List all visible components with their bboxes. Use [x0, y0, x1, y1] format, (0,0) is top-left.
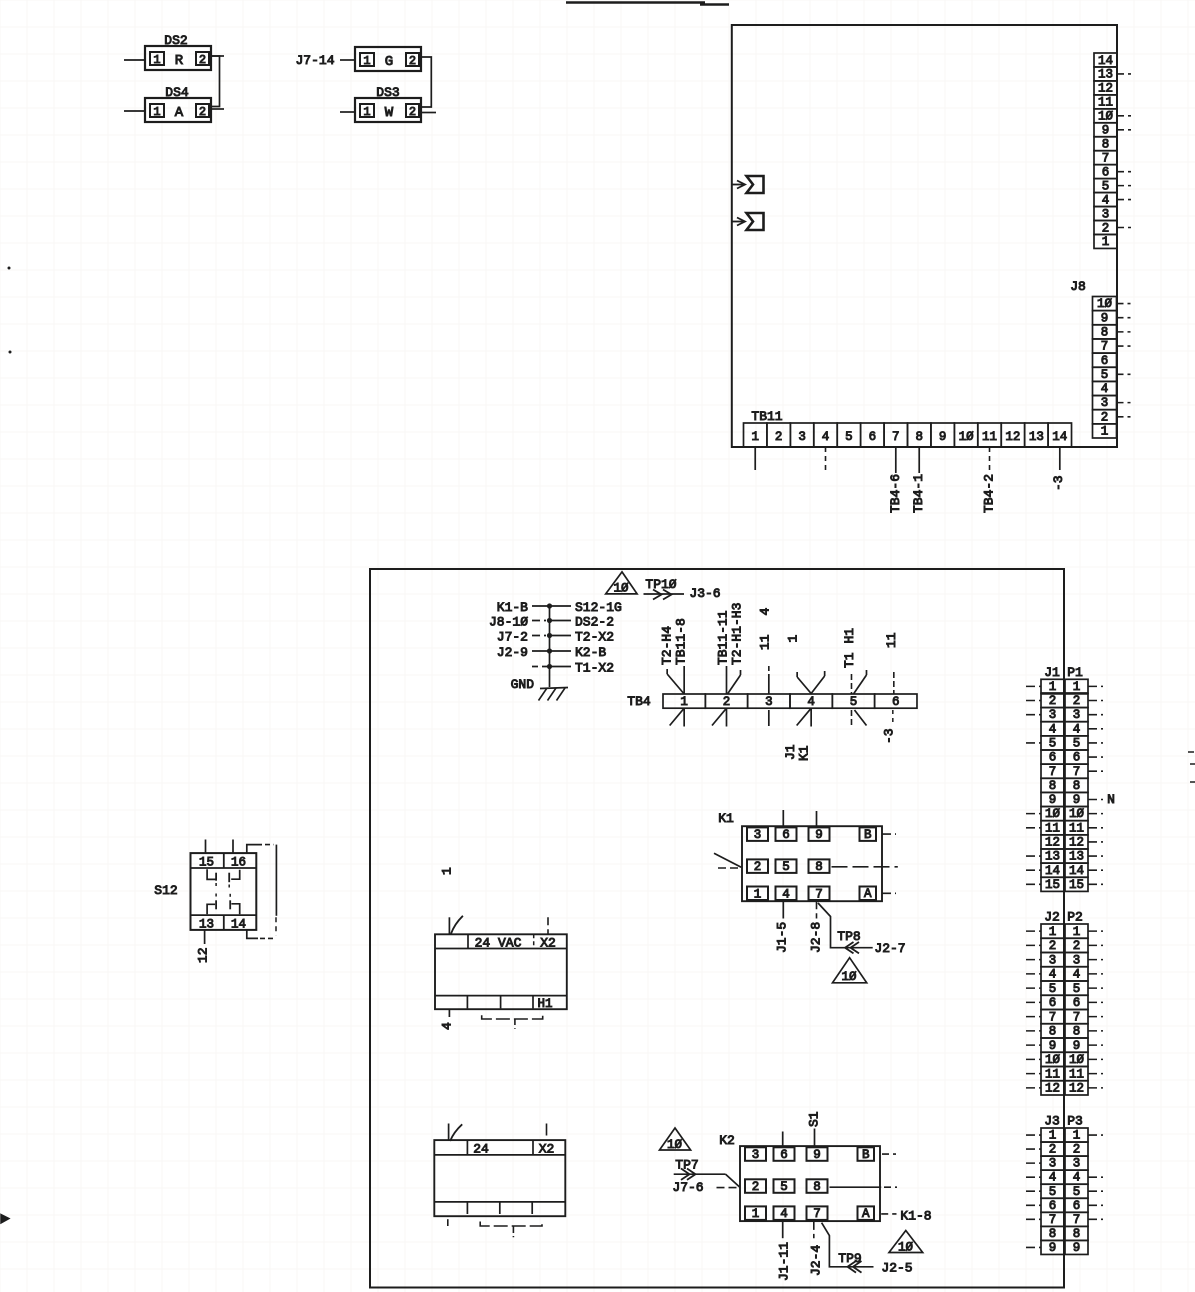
svg-text:7: 7 [813, 1207, 821, 1221]
junction dot [547, 603, 552, 608]
svg-text:1: 1 [363, 105, 370, 119]
svg-text:1: 1 [751, 430, 759, 444]
svg-text:S1: S1 [807, 1111, 822, 1127]
svg-text:4: 4 [1049, 1171, 1057, 1185]
svg-text:8: 8 [1049, 779, 1057, 793]
svg-text:7: 7 [1073, 1010, 1081, 1024]
connector J3/P3 pins [1041, 1128, 1088, 1255]
svg-text:14: 14 [1098, 54, 1113, 68]
connector column pins 14..1 [1094, 53, 1117, 249]
svg-text:2: 2 [1073, 1143, 1081, 1157]
junction dot [547, 633, 552, 638]
svg-text:7: 7 [892, 430, 900, 444]
svg-text:6: 6 [1049, 996, 1057, 1010]
svg-text:K2: K2 [719, 1133, 735, 1148]
relay K2 [740, 1146, 880, 1221]
svg-text:DS2-2: DS2-2 [575, 615, 614, 630]
svg-text:1: 1 [752, 1207, 760, 1221]
svg-text:4: 4 [807, 695, 815, 709]
wire K1-9 stub up [816, 811, 818, 826]
svg-text:3: 3 [752, 1148, 760, 1162]
svg-text:4: 4 [1049, 968, 1057, 982]
terminal strip TB11 pins 1..14 [744, 423, 1072, 447]
svg-text:J7-6: J7-6 [672, 1180, 703, 1195]
svg-text:1: 1 [440, 867, 455, 875]
svg-text:1Ø: 1Ø [841, 970, 857, 984]
wire T1-X2 row [532, 666, 550, 668]
svg-text:5: 5 [1073, 737, 1081, 751]
wires above TB4-5 [850, 674, 852, 694]
wire K1-6 stub up [782, 810, 784, 826]
wire below TB11-7 [895, 447, 897, 473]
wire into K1-2 (diagonal) [714, 853, 741, 867]
svg-text:4: 4 [782, 887, 790, 901]
wire K1-7 to J2-7 [818, 903, 873, 948]
svg-text:1: 1 [754, 887, 762, 901]
svg-text:X2: X2 [540, 935, 556, 950]
svg-text:11: 11 [1069, 821, 1084, 835]
svg-text:1Ø: 1Ø [1069, 1053, 1085, 1067]
svg-text:K1: K1 [797, 745, 812, 761]
svg-text:13: 13 [199, 917, 214, 931]
wire curve into T1 top-left [450, 1124, 462, 1141]
svg-text:8: 8 [1049, 1227, 1057, 1241]
wire DS4 pin2 right stub [211, 108, 224, 110]
svg-text:6: 6 [1073, 1199, 1081, 1213]
page edge artifact line [566, 1, 705, 3]
svg-text:5: 5 [780, 1180, 788, 1194]
svg-text:J2-5: J2-5 [881, 1261, 912, 1276]
svg-text:1Ø: 1Ø [1045, 1053, 1061, 1067]
svg-text:4: 4 [1073, 1171, 1081, 1185]
svg-text:J2: J2 [1044, 910, 1060, 925]
svg-text:1: 1 [680, 695, 688, 709]
wire T2 bottom-left pin [448, 1009, 450, 1017]
svg-text:2: 2 [1102, 221, 1110, 235]
wire T1 top-left pin [448, 1124, 450, 1141]
wire K1-4 stub down [782, 901, 784, 918]
wire K2-B right stub [882, 1153, 896, 1155]
svg-text:5: 5 [1101, 368, 1109, 382]
wire K2-7 stub down (dashed) [813, 1222, 815, 1238]
svg-text:8: 8 [813, 1180, 821, 1194]
svg-text:6: 6 [1049, 1199, 1057, 1213]
wires above TB4-4 (vee) [797, 676, 825, 694]
svg-text:12: 12 [196, 947, 211, 963]
svg-text:14: 14 [1045, 864, 1060, 878]
wire S12-13 stub down [204, 930, 206, 944]
svg-text:X2: X2 [539, 1142, 555, 1157]
wire T1 top-right pin [546, 1124, 548, 1141]
svg-text:1: 1 [153, 53, 160, 67]
arrow chevrons on J2-7 wire [845, 942, 854, 953]
svg-text:4: 4 [1073, 722, 1081, 736]
svg-text:H1: H1 [537, 997, 552, 1011]
wire J7-6 into K2-2 (dashed) [717, 1187, 741, 1189]
svg-text:5: 5 [1049, 1185, 1057, 1199]
svg-text:W: W [385, 105, 394, 121]
svg-text:2: 2 [1049, 1143, 1057, 1157]
svg-text:3: 3 [1073, 1157, 1081, 1171]
svg-text:13: 13 [1029, 430, 1044, 444]
svg-text:2: 2 [754, 860, 762, 874]
svg-text:1: 1 [1102, 235, 1110, 249]
svg-text:R: R [175, 53, 184, 69]
svg-text:9: 9 [1102, 124, 1110, 138]
svg-text:12: 12 [1098, 82, 1113, 96]
svg-text:8: 8 [1101, 325, 1109, 339]
wire DS2 pin1 left stub [124, 59, 145, 61]
svg-text:1: 1 [1049, 680, 1057, 694]
wire stubs J1 (left) [1026, 685, 1041, 687]
lamp DS1 (G) [355, 47, 421, 71]
wire below TB11-11 (dashed) [989, 447, 991, 473]
svg-text:J1-5: J1-5 [775, 922, 790, 953]
svg-text:3: 3 [1049, 953, 1057, 967]
svg-text:A: A [862, 1207, 870, 1221]
svg-text:T2-H1-H3: T2-H1-H3 [730, 603, 745, 665]
svg-text:8: 8 [1073, 779, 1081, 793]
lamp DS4 (A) [145, 85, 211, 122]
right margin dash [1188, 751, 1194, 753]
wire K1-8 right (dashed) [832, 866, 898, 868]
margin speck [8, 267, 11, 270]
heavy divider under J1/P1 row 1 [1041, 692, 1088, 695]
svg-text:4: 4 [758, 608, 773, 616]
svg-text:1Ø: 1Ø [1069, 807, 1085, 821]
svg-text:TB4: TB4 [627, 694, 651, 709]
connector J8 pins 10..1 [1093, 297, 1117, 439]
svg-text:3: 3 [1101, 396, 1109, 410]
wire stubs J3 (left) [1026, 1134, 1041, 1136]
svg-text:5: 5 [850, 695, 858, 709]
svg-text:15: 15 [1045, 878, 1060, 892]
svg-text:J8-1Ø: J8-1Ø [489, 615, 528, 630]
arrow chevrons on J2-5 wire [848, 1261, 857, 1273]
svg-text:1: 1 [1101, 425, 1109, 439]
wire S12-16 stub up [232, 840, 234, 854]
svg-text:5: 5 [1049, 737, 1057, 751]
svg-text:4: 4 [1073, 968, 1081, 982]
svg-text:5: 5 [845, 430, 853, 444]
wire J7-14 to G pin1 [340, 59, 355, 61]
wire K2-A right stub [881, 1213, 896, 1215]
svg-text:2: 2 [752, 1180, 760, 1194]
svg-text:9: 9 [1073, 793, 1081, 807]
wires above TB4-2 [725, 666, 727, 694]
svg-text:2: 2 [1101, 410, 1109, 424]
svg-text:4: 4 [822, 430, 830, 444]
svg-text:J8: J8 [1070, 279, 1086, 294]
wires above TB4-1 [683, 666, 685, 694]
svg-text:7: 7 [1101, 340, 1109, 354]
svg-text:7: 7 [1049, 1010, 1057, 1024]
wire S12-1G row [532, 605, 550, 607]
wire above TB4-3 [768, 674, 770, 694]
connector J2/P2 pins [1041, 924, 1088, 1096]
svg-text:J3-6: J3-6 [689, 586, 720, 601]
svg-text:3: 3 [1049, 1157, 1057, 1171]
wire T2 top-left pin [448, 917, 450, 934]
svg-text:13: 13 [1069, 850, 1084, 864]
bracket under T2 secondary [482, 1015, 543, 1019]
svg-text:15: 15 [1069, 878, 1084, 892]
svg-text:12: 12 [1045, 1082, 1060, 1096]
svg-text:2: 2 [1049, 694, 1057, 708]
junction dot [547, 664, 552, 669]
chassis ground symbol [540, 688, 568, 689]
svg-text:13: 13 [1098, 68, 1113, 82]
svg-text:J1-11: J1-11 [777, 1242, 792, 1281]
flag note triangle 10 (near J2-5) [889, 1231, 923, 1253]
svg-text:12: 12 [1045, 835, 1060, 849]
svg-text:9: 9 [1101, 311, 1109, 325]
svg-text:1Ø: 1Ø [1098, 110, 1114, 124]
wire W pin1 left stub [340, 111, 355, 113]
wire G-2 to W-2 [422, 57, 431, 107]
wire TP10 arrow to J3-6 [644, 593, 685, 595]
right margin dash [1190, 781, 1195, 783]
svg-text:4: 4 [780, 1207, 788, 1221]
svg-text:6: 6 [1102, 165, 1110, 179]
bracket under T1 secondary [480, 1222, 542, 1227]
off-page connector symbol (upper) [732, 184, 743, 186]
svg-text:1: 1 [363, 54, 370, 68]
svg-text:7: 7 [1049, 765, 1057, 779]
junction dot [547, 648, 552, 653]
wire below TB4-6 (dashed) [892, 710, 894, 726]
svg-text:J2-4: J2-4 [809, 1245, 824, 1276]
svg-text:TB4-6: TB4-6 [888, 474, 903, 513]
svg-text:8: 8 [1102, 138, 1110, 152]
svg-text:12: 12 [1069, 1082, 1084, 1096]
svg-text:1: 1 [1073, 925, 1081, 939]
svg-text:P1: P1 [1067, 665, 1083, 680]
svg-text:TB4-2: TB4-2 [982, 474, 997, 513]
wire W pin2 right stub [422, 112, 436, 114]
flag note triangle 10 (below TP8) [833, 958, 867, 983]
wire below TB11-4 (dashed) [825, 447, 827, 470]
wire below TB11-8 [918, 447, 920, 473]
svg-text:J2-7: J2-7 [874, 941, 905, 956]
svg-text:K1-8: K1-8 [900, 1209, 931, 1224]
wire K2-7 to J2-5 [822, 1223, 874, 1267]
svg-text:9: 9 [939, 430, 947, 444]
svg-text:-3: -3 [882, 728, 897, 744]
wire T2 top-right pin (dashed) [547, 917, 549, 934]
svg-text:6: 6 [892, 695, 900, 709]
wire stubs right of pins 13,10,9,6,5,4,2 [1117, 73, 1131, 75]
lamp DS2 (R) [145, 33, 211, 70]
wire T2-X2 row [532, 635, 550, 637]
wires below TB4-5 [850, 710, 852, 726]
wire above TB4-6 (dashed) [893, 672, 895, 694]
svg-text:11: 11 [982, 430, 997, 444]
wire K1-7 stub down (dashed) [816, 901, 818, 918]
svg-text:3: 3 [1073, 953, 1081, 967]
wire K1-A right stub [882, 892, 896, 894]
wire K2-4 stub down [782, 1222, 784, 1238]
svg-text:1Ø: 1Ø [667, 1138, 683, 1152]
wire stubs right of J8 pins 10,9,8,7,5,3,2 [1117, 303, 1131, 305]
svg-text:24 VAC: 24 VAC [475, 935, 522, 950]
svg-text:14: 14 [231, 917, 246, 931]
svg-text:6: 6 [1073, 751, 1081, 765]
svg-text:2: 2 [723, 695, 731, 709]
svg-text:S12: S12 [154, 883, 177, 898]
wire TP7 into K2-2 [674, 1173, 726, 1175]
wire into K1-2 (dashed) [718, 867, 742, 869]
svg-text:6: 6 [1073, 996, 1081, 1010]
svg-text:TB11-11: TB11-11 [716, 610, 731, 665]
svg-text:12: 12 [1069, 835, 1084, 849]
svg-text:9: 9 [1049, 1039, 1057, 1053]
svg-text:9: 9 [813, 1148, 821, 1162]
svg-text:P2: P2 [1067, 910, 1083, 925]
svg-text:H1: H1 [842, 628, 857, 644]
transformer T1 box [434, 1140, 565, 1216]
svg-text:2: 2 [199, 53, 206, 67]
svg-text:6: 6 [780, 1148, 788, 1162]
wire curve into T2 top-left [451, 916, 463, 934]
svg-text:11: 11 [884, 632, 899, 648]
wire stubs P1 (right) [1088, 685, 1103, 687]
svg-text:J7-2: J7-2 [497, 630, 528, 645]
svg-text:T1-X2: T1-X2 [575, 661, 614, 676]
svg-text:7: 7 [1049, 1213, 1057, 1227]
svg-text:2: 2 [409, 54, 416, 68]
lamp DS3 (W) [355, 85, 421, 122]
svg-text:2: 2 [775, 430, 783, 444]
svg-text:1Ø: 1Ø [1045, 807, 1061, 821]
svg-text:1: 1 [1073, 680, 1081, 694]
svg-text:1: 1 [153, 105, 160, 119]
svg-text:K1-B: K1-B [497, 600, 528, 615]
svg-text:TP8: TP8 [837, 929, 860, 944]
svg-text:9: 9 [815, 828, 823, 842]
svg-text:1: 1 [1049, 925, 1057, 939]
svg-text:11: 11 [1045, 1067, 1060, 1081]
svg-text:TB11: TB11 [751, 409, 782, 424]
svg-text:8: 8 [915, 430, 923, 444]
svg-text:7: 7 [815, 887, 823, 901]
svg-text:S12-1G: S12-1G [575, 600, 622, 615]
wire stubs P3 (right) [1088, 1134, 1103, 1136]
svg-text:2: 2 [199, 105, 206, 119]
connector J1/P1 pins [1041, 679, 1088, 892]
wire below TB11-14 [1059, 447, 1061, 470]
svg-text:4: 4 [1101, 382, 1109, 396]
junction dot [547, 618, 552, 623]
svg-text:5: 5 [1073, 982, 1081, 996]
svg-text:-3: -3 [1051, 475, 1066, 491]
wire DS4 pin1 left stub [124, 110, 145, 112]
wire DS2-2 to DS4-2 [211, 56, 220, 107]
svg-text:K2-B: K2-B [575, 645, 606, 660]
svg-text:2: 2 [409, 105, 416, 119]
wire K2-6 stub up [782, 1132, 784, 1147]
svg-text:4: 4 [1102, 193, 1110, 207]
svg-text:J1: J1 [1044, 665, 1060, 680]
svg-text:K1: K1 [718, 811, 734, 826]
svg-text:T1: T1 [842, 652, 857, 668]
svg-text:GND: GND [511, 677, 535, 692]
svg-text:3: 3 [765, 695, 773, 709]
svg-text:12: 12 [1005, 430, 1020, 444]
svg-text:J3: J3 [1044, 1114, 1060, 1129]
svg-text:A: A [175, 105, 184, 121]
svg-text:6: 6 [1049, 751, 1057, 765]
svg-text:1Ø: 1Ø [959, 430, 975, 444]
svg-text:P3: P3 [1067, 1114, 1083, 1129]
svg-text:2: 2 [1073, 939, 1081, 953]
svg-text:7: 7 [1073, 765, 1081, 779]
svg-text:4: 4 [1049, 722, 1057, 736]
relay K1 [742, 826, 882, 901]
wires below TB4-2 [725, 708, 727, 726]
svg-text:T2-H4: T2-H4 [660, 626, 675, 665]
wire below TB11-1 [754, 447, 756, 470]
wire K2-9 stub up [814, 1129, 816, 1147]
wire stubs P2 (right) [1088, 930, 1103, 932]
svg-text:1Ø: 1Ø [898, 1241, 914, 1255]
svg-text:7: 7 [1073, 1213, 1081, 1227]
svg-text:6: 6 [1101, 354, 1109, 368]
svg-text:1Ø: 1Ø [613, 582, 629, 596]
svg-text:14: 14 [1052, 430, 1067, 444]
svg-text:TP7: TP7 [675, 1158, 698, 1173]
svg-text:8: 8 [1073, 1025, 1081, 1039]
svg-text:9: 9 [1073, 1039, 1081, 1053]
svg-text:8: 8 [1073, 1227, 1081, 1241]
svg-text:11: 11 [1069, 1067, 1084, 1081]
svg-text:1Ø: 1Ø [1097, 297, 1113, 311]
svg-text:5: 5 [1073, 1185, 1081, 1199]
svg-text:16: 16 [231, 855, 246, 869]
svg-text:3: 3 [754, 828, 762, 842]
svg-text:5: 5 [1049, 982, 1057, 996]
svg-text:13: 13 [1045, 850, 1060, 864]
svg-text:TP1Ø: TP1Ø [645, 577, 676, 592]
svg-text:J2-9: J2-9 [497, 645, 528, 660]
svg-text:1: 1 [1073, 1129, 1081, 1143]
svg-text:J2-8: J2-8 [809, 922, 824, 953]
svg-text:7: 7 [1102, 151, 1110, 165]
wire S12-15 stub up [205, 840, 207, 854]
wire T1 bottom-left stub [447, 1219, 449, 1226]
svg-text:1: 1 [786, 635, 801, 643]
right margin dash [1190, 763, 1195, 765]
svg-text:11: 11 [758, 634, 773, 650]
svg-text:G: G [385, 54, 393, 70]
margin speck [9, 351, 12, 354]
wire stubs J2 (left) [1026, 930, 1041, 932]
svg-text:A: A [864, 887, 872, 901]
transformer T2 box [435, 934, 567, 1011]
svg-text:TB11-8: TB11-8 [674, 618, 689, 665]
ground bus wire [549, 606, 551, 687]
svg-text:4: 4 [440, 1022, 455, 1030]
svg-text:B: B [862, 1148, 870, 1162]
svg-text:5: 5 [782, 860, 790, 874]
svg-text:TB4-1: TB4-1 [911, 474, 926, 513]
svg-text:2: 2 [1073, 694, 1081, 708]
svg-text:3: 3 [798, 430, 806, 444]
wire below TB4-3 [768, 710, 770, 726]
margin arrow mark [1, 1215, 9, 1224]
wires below TB4-1 [683, 708, 685, 726]
flag note triangle 10 [606, 572, 637, 594]
